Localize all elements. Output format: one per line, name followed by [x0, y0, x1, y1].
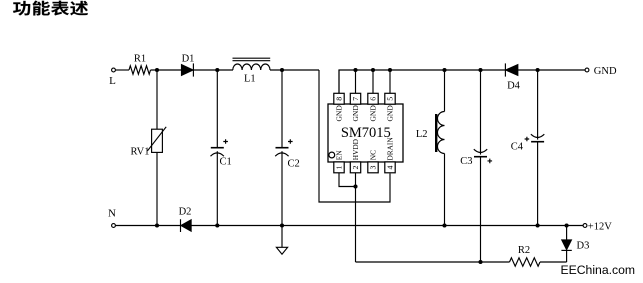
wire: [537, 142, 539, 226]
svg-text:R2: R2: [518, 245, 530, 256]
node L2-12V: [442, 223, 446, 227]
diode D4: [504, 63, 506, 76]
node D3-12V: [565, 223, 569, 227]
svg-text:L2: L2: [416, 129, 428, 140]
svg-text:C2: C2: [288, 159, 300, 170]
node C4-12V: [536, 223, 540, 227]
wire: [191, 225, 583, 227]
pin 8 wire: [338, 70, 340, 93]
svg-text:D3: D3: [577, 241, 590, 252]
wire: [566, 226, 568, 240]
svg-text:C4: C4: [511, 142, 524, 153]
varistor RV1: [152, 129, 163, 152]
inductor L2: [438, 112, 445, 154]
resistor R1: [129, 66, 151, 74]
terminal L: [112, 68, 116, 72]
svg-text:3: 3: [369, 166, 378, 170]
resistor R2: [510, 258, 541, 266]
node L2-top: [442, 68, 446, 72]
capacitor C3: [474, 149, 487, 152]
pin 2 box: [350, 162, 360, 173]
pin 4 box: [385, 162, 395, 173]
wire: [151, 69, 182, 71]
GND rail: [339, 70, 505, 93]
wire: [480, 70, 482, 155]
capacitor C1: [211, 147, 224, 149]
wire: [116, 69, 129, 71]
node C1-N: [215, 223, 219, 227]
svg-text:+12V: +12V: [588, 222, 612, 233]
wire: [216, 151, 218, 225]
node EN-HVDD: [353, 184, 357, 188]
node L1-out: [280, 68, 284, 72]
pin 5 box: [385, 93, 395, 104]
svg-text:SM7015: SM7015: [341, 125, 391, 141]
wire EN: [339, 173, 356, 187]
pin-1 indicator: [329, 152, 335, 158]
svg-text:1: 1: [335, 166, 344, 170]
wire: [193, 69, 233, 71]
terminal +12V: [583, 224, 587, 228]
svg-text:GND: GND: [386, 105, 395, 122]
svg-text:GND: GND: [351, 105, 360, 122]
node C4-top: [536, 68, 540, 72]
svg-text:GND: GND: [335, 105, 344, 122]
wire: [444, 70, 446, 112]
capacitor C2: [276, 147, 289, 149]
node C3-bot: [478, 260, 482, 264]
terminal GND: [585, 68, 589, 72]
pin 3 box: [368, 162, 378, 173]
title 功能表述: [13, 1, 88, 16]
capacitor C4: [531, 134, 544, 137]
wire: [270, 69, 319, 71]
svg-text:D1: D1: [182, 54, 195, 65]
svg-text:D2: D2: [179, 207, 192, 218]
wire: [216, 70, 218, 147]
svg-text:D4: D4: [507, 81, 521, 92]
node D1-C1: [215, 68, 219, 72]
svg-text:NC: NC: [369, 150, 378, 160]
inductor L1: [233, 64, 270, 70]
pin 7 box: [350, 93, 360, 104]
op-amp U1 SM7015 body: [328, 104, 403, 162]
svg-text:RV1: RV1: [131, 147, 150, 158]
svg-text:R1: R1: [134, 54, 146, 65]
wire: [281, 70, 283, 147]
ground: [276, 247, 287, 254]
svg-text:GND: GND: [594, 66, 617, 77]
svg-text:7: 7: [351, 97, 360, 101]
wire: [480, 157, 482, 262]
wire: [356, 261, 510, 263]
svg-text:EEChina.com: EEChina.com: [561, 263, 636, 277]
svg-text:GND: GND: [369, 105, 378, 122]
wire: [444, 154, 446, 226]
wire: [116, 225, 181, 227]
svg-text:L: L: [109, 75, 116, 87]
svg-text:4: 4: [386, 166, 395, 170]
node C2-N: [280, 223, 284, 227]
svg-text:C3: C3: [460, 156, 472, 167]
node RV1-N: [155, 223, 159, 227]
wire to DRAIN: [319, 70, 390, 202]
svg-text:EN: EN: [335, 150, 344, 160]
wire: [518, 69, 585, 71]
svg-text:8: 8: [335, 97, 344, 101]
diode D2: [180, 219, 182, 232]
wire: [540, 261, 567, 263]
node pin-GND: [353, 68, 357, 72]
terminal N: [112, 224, 116, 228]
svg-text:L1: L1: [244, 74, 256, 85]
wire: [281, 151, 283, 247]
node C3-top: [478, 68, 482, 72]
wire: [156, 70, 158, 226]
svg-text:6: 6: [369, 97, 378, 101]
wire: [566, 251, 568, 263]
svg-text:DRAIN: DRAIN: [386, 137, 395, 161]
node pin-GND: [371, 68, 375, 72]
svg-text:N: N: [108, 208, 116, 220]
wire: [537, 70, 539, 140]
svg-text:2: 2: [351, 166, 360, 170]
diode D3: [562, 240, 572, 250]
pin 5 wire: [389, 70, 391, 93]
node pin-GND: [388, 68, 392, 72]
svg-text:C1: C1: [220, 157, 232, 168]
svg-text:HVDD: HVDD: [351, 139, 360, 160]
pin 7 wire: [355, 70, 357, 93]
pin 6 wire: [372, 70, 374, 93]
node R1-D1: [155, 68, 159, 72]
wire HVDD: [355, 173, 357, 262]
pin 8 box: [334, 93, 344, 104]
diode D1: [182, 65, 194, 76]
pin 6 box: [368, 93, 378, 104]
pin 1 box: [334, 162, 344, 173]
svg-text:5: 5: [386, 97, 395, 101]
